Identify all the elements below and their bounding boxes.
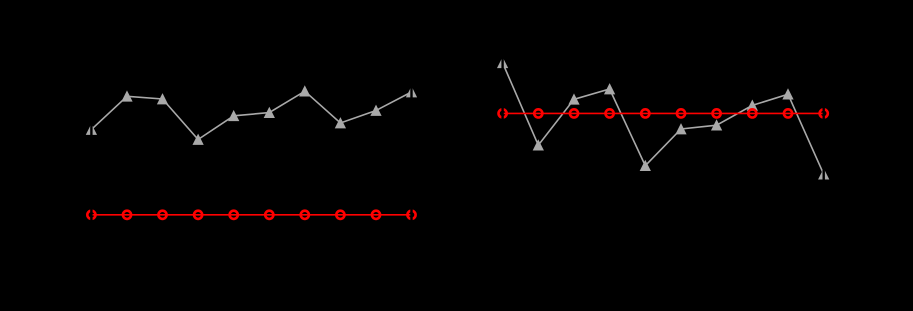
right axes: black spines drawn over markers [501,50,503,235]
left axes: red circle markers [87,211,415,219]
right axes: red circle markers [499,109,828,117]
right axes: red series line (drawn above gray) [503,112,824,114]
left axes: red series line [91,214,411,216]
right axes: gray triangle markers [498,58,829,179]
right axes: gray series line [503,63,824,174]
left axes: gray series line [91,91,411,139]
left axes: gray triangle markers [87,86,417,144]
left axes: black spines drawn over markers [90,55,92,235]
